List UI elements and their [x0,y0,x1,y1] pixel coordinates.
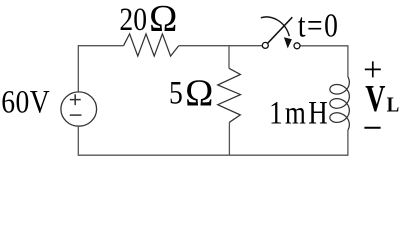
svg-text:t=0: t=0 [298,6,339,44]
svg-text:L: L [387,94,400,117]
svg-text:60V: 60V [1,83,50,120]
svg-text:Ω: Ω [185,72,213,114]
svg-text:1mH: 1mH [269,95,330,131]
svg-text:Ω: Ω [149,0,177,40]
svg-text:5: 5 [169,74,183,111]
svg-text:V: V [365,78,385,120]
svg-text:20: 20 [119,1,147,38]
